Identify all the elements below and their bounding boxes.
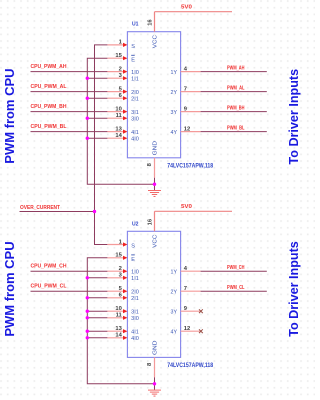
svg-text:14: 14: [115, 333, 122, 339]
svg-text:1Y: 1Y: [171, 270, 178, 276]
net label OVER_CURRENT and wire: [20, 205, 95, 212]
svg-text:7: 7: [184, 286, 187, 292]
refdes U1: [132, 22, 139, 28]
wire: grounded input row (U2) with junction: [87, 330, 107, 332]
U1 left input pin stubs with arrows (pins 1,15,2,3,5,6,10,11,13,14): [107, 43, 127, 141]
ground symbol (U1): [148, 191, 161, 197]
svg-text:15: 15: [115, 53, 122, 59]
U2 GND pin 8 stub: [147, 357, 154, 377]
svg-text:To Driver Inputs: To Driver Inputs: [286, 69, 301, 165]
wire + net label PWM_CL from U2: [201, 285, 267, 291]
svg-text:PWM_BH: PWM_BH: [227, 105, 245, 111]
svg-text:1I1: 1I1: [131, 77, 139, 83]
svg-text:PWM_CH: PWM_CH: [227, 265, 245, 271]
power port 5V0 (U2): [155, 204, 233, 211]
wire: U1 pin 15 (E) to ground bus: [87, 58, 154, 184]
svg-text:GND: GND: [152, 141, 158, 155]
pin name labels inside U2: [131, 235, 177, 355]
svg-text:4Y: 4Y: [171, 130, 178, 136]
svg-text:5V0: 5V0: [181, 204, 192, 210]
no-connect X on U2 pin 12 (4Y): [199, 329, 203, 333]
svg-text:11: 11: [116, 313, 123, 319]
wire: grounded input row (U2) with junction: [87, 337, 107, 339]
svg-text:4I1: 4I1: [131, 130, 139, 136]
refdes U2: [132, 221, 139, 227]
wire: grounded input row (U1) with junction: [87, 137, 107, 139]
U1 GND pin 8 stub: [147, 158, 154, 178]
wire + net label PWM_CH from U2: [201, 265, 267, 271]
wire: U1 GND pin to ground: [154, 178, 156, 191]
svg-text:PWM_AH: PWM_AH: [227, 65, 245, 71]
svg-text:1I0: 1I0: [131, 270, 139, 276]
svg-text:74LVC157APW,118: 74LVC157APW,118: [167, 363, 214, 369]
svg-text:PWM_AL: PWM_AL: [227, 85, 245, 91]
svg-text:CPU_PWM_BH: CPU_PWM_BH: [31, 104, 67, 110]
svg-text:3I1: 3I1: [131, 110, 139, 116]
svg-text:To Driver Inputs: To Driver Inputs: [286, 241, 301, 337]
svg-text:CPU_PWM_CH: CPU_PWM_CH: [31, 264, 67, 270]
svg-text:PWM_CL: PWM_CL: [227, 285, 245, 291]
U1 right output pin stubs (pins 4,7,9,12): [181, 72, 201, 132]
svg-text:16: 16: [148, 218, 154, 225]
wire: grounded input row (U1) with junction: [87, 97, 107, 99]
svg-text:7: 7: [184, 86, 187, 92]
pin name labels inside U1: [131, 35, 177, 155]
wire: grounded input row (U1) with junction: [87, 117, 107, 119]
IC U2 74LVC157APW multiplexer body: [127, 231, 180, 357]
power port 5V0 (U1): [155, 5, 233, 12]
svg-text:4Y: 4Y: [171, 330, 178, 336]
svg-text:VCC: VCC: [153, 235, 159, 248]
svg-text:VCC: VCC: [153, 35, 159, 48]
svg-text:GND: GND: [152, 341, 158, 355]
svg-text:OVER_CURRENT: OVER_CURRENT: [20, 205, 61, 211]
svg-text:4I0: 4I0: [131, 137, 139, 143]
ground symbol (U2): [148, 390, 161, 396]
svg-text:2I1: 2I1: [131, 97, 139, 103]
wire + net label CPU_PWM_BL to U1: [31, 124, 108, 132]
svg-text:14: 14: [115, 133, 122, 139]
wire: grounded input row (U1) with junction: [87, 77, 107, 79]
svg-text:4I0: 4I0: [131, 336, 139, 342]
svg-text:S: S: [131, 44, 135, 50]
wire + net label CPU_PWM_BH to U1: [31, 104, 108, 112]
svg-text:2Y: 2Y: [171, 90, 178, 96]
svg-text:U1: U1: [132, 22, 139, 28]
svg-text:CPU_PWM_CL: CPU_PWM_CL: [31, 284, 68, 290]
wire + net label CPU_PWM_AH to U1: [31, 64, 108, 72]
svg-text:13: 13: [115, 326, 122, 332]
svg-text:1Y: 1Y: [171, 70, 178, 76]
wire: grounded input row (U2) with junction: [87, 310, 107, 312]
wire: grounded input row (U2) with junction: [87, 277, 107, 279]
U2 right output pin stubs (pins 4,7,9,12): [181, 271, 201, 331]
svg-text:4I1: 4I1: [131, 330, 139, 336]
svg-text:15: 15: [115, 253, 122, 259]
svg-text:2: 2: [119, 266, 122, 272]
U2 left pin numbers: [115, 239, 122, 338]
svg-text:2I0: 2I0: [131, 90, 139, 96]
no-connect X on U2 pin 9 (3Y): [199, 309, 203, 313]
wire: grounded input row (U2) with junction: [87, 317, 107, 319]
wire + net label CPU_PWM_CH to U2: [31, 264, 108, 272]
U2 VCC pin 16 stub: [148, 211, 155, 231]
svg-text:CPU_PWM_AL: CPU_PWM_AL: [31, 84, 68, 90]
svg-text:E: E: [131, 257, 135, 263]
svg-text:CPU_PWM_AH: CPU_PWM_AH: [31, 64, 67, 70]
U1 VCC pin 16 stub: [148, 12, 155, 32]
wire + net label PWM_AH from U1: [201, 65, 267, 71]
svg-text:2: 2: [119, 66, 122, 72]
svg-text:12: 12: [184, 326, 190, 332]
svg-text:16: 16: [148, 19, 154, 26]
wire: S bus from U1 pin 1 down to U2 pin 1: [95, 45, 108, 245]
svg-text:3I0: 3I0: [131, 117, 139, 123]
value label 74LVC157APW,118 (U1): [167, 163, 214, 169]
svg-text:U2: U2: [132, 221, 139, 227]
wire + net label PWM_BH from U1: [201, 105, 267, 111]
U1 left pin numbers: [115, 40, 122, 139]
wire: U2 pin 15 (E) to ground bus: [87, 258, 154, 384]
svg-text:1I1: 1I1: [131, 276, 139, 282]
svg-text:CPU_PWM_BL: CPU_PWM_BL: [31, 124, 68, 130]
wire: grounded input row (U2) with junction: [87, 297, 107, 299]
svg-text:11: 11: [116, 113, 123, 119]
svg-text:10: 10: [115, 306, 121, 312]
svg-text:12: 12: [184, 126, 190, 132]
U2 right pin numbers: [184, 266, 190, 332]
svg-text:2I1: 2I1: [131, 296, 139, 302]
svg-text:5V0: 5V0: [181, 5, 192, 11]
U1 right pin numbers: [184, 66, 190, 132]
svg-text:1I0: 1I0: [131, 70, 139, 76]
svg-text:13: 13: [115, 126, 122, 132]
svg-text:3I1: 3I1: [131, 310, 139, 316]
svg-text:74LVC157APW,118: 74LVC157APW,118: [167, 163, 214, 169]
wire + net label PWM_BL from U1: [201, 125, 267, 131]
U2 left input pin stubs with arrows (pins 1,15,2,3,5,6,10,11,13,14): [107, 242, 127, 340]
junction dots (drawn on top): [86, 77, 157, 386]
IC U1 74LVC157APW multiplexer body: [127, 32, 180, 158]
svg-text:2I0: 2I0: [131, 290, 139, 296]
value label 74LVC157APW,118 (U2): [167, 363, 214, 369]
wire + net label PWM_AL from U1: [201, 85, 267, 91]
svg-text:S: S: [131, 244, 135, 250]
svg-text:E: E: [131, 57, 135, 63]
wire + net label CPU_PWM_AL to U1: [31, 84, 108, 92]
svg-text:PWM_BL: PWM_BL: [227, 125, 245, 131]
wire: U2 GND pin to ground: [154, 377, 156, 390]
svg-text:PWM from CPU: PWM from CPU: [2, 241, 17, 336]
wire + net label CPU_PWM_CL to U2: [31, 284, 108, 292]
svg-text:2Y: 2Y: [171, 290, 178, 296]
svg-text:PWM from CPU: PWM from CPU: [2, 69, 17, 164]
svg-text:3Y: 3Y: [171, 110, 178, 116]
svg-text:3I0: 3I0: [131, 316, 139, 322]
svg-text:10: 10: [115, 106, 121, 112]
svg-text:3Y: 3Y: [171, 310, 178, 316]
